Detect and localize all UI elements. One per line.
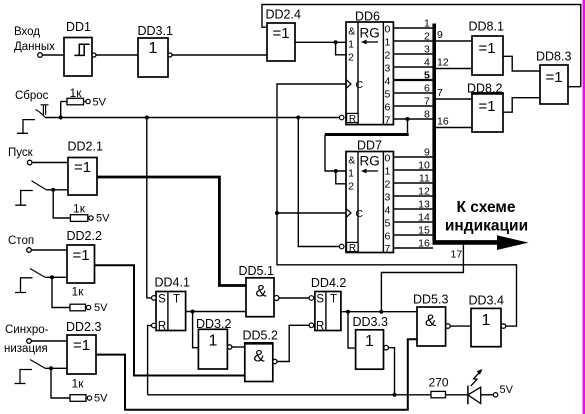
wire DD2.1 out thick to DD5.1 input 1	[97, 177, 246, 286]
inverter DD3.3	[353, 315, 389, 369]
bus line numbers 9-16	[418, 147, 430, 250]
svg-text:6: 6	[384, 102, 390, 114]
LED VD1	[468, 369, 494, 404]
svg-text:S: S	[158, 294, 166, 306]
svg-text:R: R	[349, 243, 356, 254]
wire DD2.4 out to DD6 inputs 1,2	[295, 42, 346, 55]
trigger DD4.2	[309, 276, 346, 333]
XOR gate DD8.3	[536, 50, 571, 105]
svg-text:=1: =1	[73, 337, 90, 354]
junction Пуск pullup	[51, 188, 55, 192]
wire DD3.4 out clock loop to DD6 DD7 C inputs	[277, 84, 517, 326]
buffer DD3.1	[138, 24, 173, 77]
resistor R3 1к (Стоп pullup)	[52, 277, 108, 314]
input terminal Синхронизация	[27, 339, 32, 344]
svg-text:5: 5	[384, 218, 390, 230]
wire Сброс down to DD4.1 S	[147, 118, 152, 298]
wire DD6 output 7	[393, 118, 433, 120]
bus tap 7 wire to DD8.2	[436, 98, 472, 100]
svg-text:1к: 1к	[73, 202, 86, 216]
junction DD3.3 out on LED net	[393, 393, 397, 397]
svg-text:7: 7	[384, 115, 390, 127]
arrow К схеме индикации	[433, 240, 500, 245]
svg-text:C: C	[356, 79, 364, 91]
wire cascade DD6 to DD7 inputs 1,2 (thick)	[407, 119, 409, 135]
XOR gate DD2.2	[67, 229, 102, 283]
junction DD7 input tie	[334, 169, 338, 173]
wire Синхронизация to DD2.3 input 1	[31, 340, 67, 342]
wire DD6 output 6	[393, 105, 433, 107]
resistor R2 1к (Пуск pullup)	[53, 190, 110, 225]
svg-text:7: 7	[424, 96, 430, 108]
svg-text:=1: =1	[72, 247, 89, 264]
pushbutton SB1 Сброс	[36, 105, 49, 117]
wire DD8.3 out to top loop	[568, 86, 581, 88]
wire DD4.1 out down to DD3.2 input	[193, 312, 199, 348]
wire switch to DD2.1 input 2	[46, 189, 68, 191]
svg-text:2: 2	[348, 52, 354, 64]
buffer DD3.4	[469, 294, 506, 347]
wire feedback from DD8.3 top loop	[262, 5, 581, 87]
svg-text:DD2.1: DD2.1	[68, 140, 103, 154]
svg-text:1: 1	[348, 39, 354, 51]
svg-text:DD3.1: DD3.1	[138, 24, 173, 38]
svg-text:5: 5	[384, 89, 390, 101]
svg-text:5V: 5V	[96, 213, 110, 225]
svg-text:RG: RG	[360, 154, 380, 169]
XOR gate DD8.1	[469, 20, 504, 76]
wire DD6 output 5	[393, 92, 433, 94]
pulse symbol Пуск	[15, 191, 33, 206]
inverter DD3.2	[196, 317, 232, 369]
wire DD4.2 out down to DD3.3 input	[348, 312, 356, 348]
wire DD7 output 7	[393, 247, 433, 249]
wire DD5.3 out to DD3.4 input	[450, 325, 471, 327]
wire Сброс net to DD6 R	[45, 117, 340, 119]
svg-text:4: 4	[384, 205, 390, 217]
wire DD6 output 1	[393, 40, 433, 42]
wire DD7 output 1	[393, 169, 433, 171]
svg-text:1: 1	[384, 166, 390, 178]
wire switch to DD2.2 input 2	[45, 276, 67, 278]
svg-text:2: 2	[384, 50, 390, 62]
svg-text:1: 1	[384, 37, 390, 49]
wire DD7 output 5	[393, 221, 433, 223]
junction Сброс resistor	[59, 116, 63, 120]
junction Сброс to DD4.1 S	[145, 116, 149, 120]
junction clock to DD7 C	[275, 211, 279, 215]
pulse symbol Стоп	[15, 278, 33, 293]
svg-text:S: S	[316, 294, 324, 306]
pulse symbol Синхронизация	[15, 370, 33, 384]
AND gate DD5.1	[239, 264, 280, 317]
svg-text:DD8.1: DD8.1	[469, 20, 504, 34]
wire DD8.2 out to DD8.3 input 2	[503, 98, 540, 113]
wire Стоп to DD2.2 input 1	[31, 249, 67, 251]
svg-text:DD2.3: DD2.3	[66, 320, 101, 334]
pulse symbol Сброс	[17, 120, 35, 134]
svg-text:0: 0	[384, 24, 390, 36]
junction DD6 input tie	[334, 40, 338, 44]
svg-text:=1: =1	[478, 40, 495, 57]
switch SA2 Стоп	[30, 269, 45, 278]
svg-text:DD5.3: DD5.3	[413, 293, 448, 307]
svg-text:DD3.3: DD3.3	[353, 315, 388, 329]
svg-text:=1: =1	[272, 25, 289, 42]
register DD7	[339, 139, 393, 256]
wire DD3.2 out to DD5.2 input 1	[232, 346, 245, 348]
svg-text:4: 4	[424, 57, 430, 69]
wire DD2.2 out to DD5.2 input 2	[95, 265, 245, 375]
svg-text:12: 12	[418, 186, 430, 198]
wire DD7 output 0	[393, 156, 433, 158]
svg-text:2: 2	[424, 31, 430, 43]
wire DD4.2 out up to bus line 17	[381, 244, 463, 312]
svg-text:1к: 1к	[72, 377, 85, 391]
register DD6	[339, 10, 393, 127]
svg-text:=1: =1	[478, 98, 495, 115]
border magenta right edge	[583, 0, 585, 414]
svg-text:Пуск: Пуск	[8, 147, 34, 159]
svg-text:=1: =1	[74, 159, 91, 176]
svg-text:DD4.1: DD4.1	[155, 276, 190, 290]
wire DD4.1 R / LED net	[148, 394, 431, 396]
bus tap 12 wire to DD8.1	[436, 68, 472, 70]
wire DD6 output 2	[393, 53, 433, 55]
input terminal Пуск	[27, 160, 32, 165]
switch SA1 Пуск	[32, 181, 47, 190]
svg-text:Сброс: Сброс	[15, 90, 49, 102]
wire DD6 output 3	[393, 66, 433, 68]
wire data input to DD1	[42, 54, 64, 56]
input terminal data	[38, 53, 43, 58]
svg-text:7: 7	[384, 243, 390, 255]
svg-text:13: 13	[418, 199, 430, 211]
bus vertical to indication	[432, 24, 436, 242]
svg-text:1: 1	[424, 18, 430, 30]
wire DD3.3 out down to R-net	[388, 348, 394, 395]
svg-text:8: 8	[424, 109, 430, 121]
svg-text:1: 1	[365, 333, 374, 350]
junction DD4.1 out to DD3.2	[191, 310, 195, 314]
XOR gate DD2.3	[66, 320, 101, 374]
svg-text:Вход: Вход	[14, 26, 40, 38]
svg-text:17: 17	[451, 249, 463, 261]
wire Пуск to DD2.1 input 1	[32, 162, 68, 164]
wire DD8.1 out to DD8.3 input 1	[503, 56, 540, 71]
svg-text:низация: низация	[4, 343, 48, 355]
svg-text:2: 2	[384, 179, 390, 191]
bus tap 9 wire to DD8.1	[436, 40, 472, 42]
svg-text:R: R	[316, 321, 324, 333]
bus line numbers 1-8	[424, 18, 430, 121]
svg-text:15: 15	[418, 225, 430, 237]
svg-text:1: 1	[209, 333, 218, 350]
svg-text:DD3.4: DD3.4	[469, 294, 504, 308]
inverter DD1 (Schmitt trigger)	[64, 20, 96, 76]
wire Сброс down to DD7 R	[298, 118, 339, 247]
junction Сброс to DD7 R	[296, 116, 300, 120]
svg-text:5: 5	[424, 70, 430, 82]
wire DD4.1 R input	[148, 326, 152, 395]
bus tap 16 wire to DD8.2	[436, 127, 472, 129]
svg-text:1: 1	[149, 40, 158, 57]
svg-text:5V: 5V	[500, 384, 514, 396]
svg-text:5V: 5V	[94, 302, 108, 314]
svg-text:270: 270	[428, 376, 448, 390]
svg-text:0: 0	[384, 153, 390, 165]
svg-text:T: T	[330, 294, 337, 306]
svg-text:&: &	[253, 347, 265, 366]
wire DD7 output 4	[393, 208, 433, 210]
svg-text:1: 1	[482, 312, 491, 329]
svg-text:6: 6	[384, 231, 390, 243]
svg-text:DD7: DD7	[357, 139, 382, 153]
svg-text:1к: 1к	[72, 285, 85, 299]
svg-text:16: 16	[437, 116, 449, 128]
svg-text:1: 1	[348, 168, 354, 180]
svg-text:RG: RG	[360, 26, 380, 41]
wire DD7 output 2	[393, 182, 433, 184]
junction DD4.2 out to DD3.3	[346, 310, 350, 314]
node Вход Данных label	[14, 26, 55, 53]
svg-text:3: 3	[424, 44, 430, 56]
svg-text:9: 9	[424, 147, 430, 159]
XOR gate DD2.4	[266, 8, 301, 62]
resistor R1 1к (Сброс pullup)	[61, 86, 107, 118]
svg-text:R: R	[158, 321, 166, 333]
svg-text:T: T	[173, 294, 180, 306]
input terminal Стоп	[27, 248, 32, 253]
svg-text:14: 14	[418, 212, 430, 224]
wire DD4.1 out to DD5.1 input 2	[186, 311, 246, 313]
svg-text:Стоп: Стоп	[8, 235, 34, 247]
svg-text:16: 16	[418, 238, 430, 250]
wire DD1 out to DD3.1	[96, 54, 138, 56]
svg-text:DD2.2: DD2.2	[67, 229, 102, 243]
wire DD7 output 6	[393, 234, 433, 236]
junction DD6 output 7 cascade	[406, 117, 410, 121]
svg-text:Данных: Данных	[14, 41, 55, 53]
node Синхронизация label	[4, 324, 49, 355]
XOR gate DD2.1	[68, 140, 103, 196]
svg-text:C: C	[356, 208, 364, 220]
svg-text:&: &	[348, 155, 355, 167]
svg-text:7: 7	[437, 87, 443, 99]
svg-text:3: 3	[384, 192, 390, 204]
svg-text:Синхро-: Синхро-	[5, 324, 49, 336]
trigger DD4.1	[152, 276, 190, 333]
svg-text:DD5.2: DD5.2	[243, 329, 278, 343]
wire switch to DD2.3 input 2	[45, 367, 67, 369]
wire DD6 output 4	[393, 79, 433, 81]
wire DD2.3 out bottom run to DD5.3 input 2	[96, 339, 417, 410]
svg-text:10: 10	[418, 160, 430, 172]
junction Синхронизация pullup	[49, 366, 53, 370]
svg-text:R: R	[349, 114, 356, 125]
svg-text:5V: 5V	[93, 97, 107, 109]
junction DD4.2 out to bus 17	[379, 310, 383, 314]
svg-text:DD2.4: DD2.4	[266, 8, 301, 22]
terminal 5V LED	[493, 393, 497, 397]
svg-text:DD8.3: DD8.3	[536, 50, 571, 64]
wire DD5.1 out to DD4.2 S	[279, 297, 309, 299]
svg-text:4: 4	[384, 76, 390, 88]
svg-text:9: 9	[437, 29, 443, 41]
node К схеме индикации label	[445, 199, 528, 235]
wire DD4.2 R input from DD5.2 out	[277, 325, 309, 361]
svg-text:5V: 5V	[94, 393, 108, 405]
svg-text:&: &	[348, 26, 355, 38]
svg-text:3: 3	[384, 63, 390, 75]
AND gate DD5.3	[413, 293, 450, 347]
wire DD3.1 out to DD2.4 input 2	[172, 54, 267, 56]
AND gate DD5.2	[243, 329, 278, 382]
svg-text:2: 2	[348, 181, 354, 193]
wire DD4.2 out to DD5.3 input 1	[341, 311, 417, 313]
XOR gate DD8.2	[467, 82, 504, 133]
junction Стоп pullup	[50, 275, 54, 279]
svg-text:DD1: DD1	[66, 20, 91, 34]
svg-text:индикации: индикации	[445, 218, 528, 235]
svg-text:6: 6	[424, 83, 430, 95]
svg-text:DD5.1: DD5.1	[239, 264, 274, 278]
svg-text:&: &	[425, 311, 437, 330]
resistor R4 1к (Синхронизация pullup)	[51, 368, 108, 404]
switch SA3 Синхронизация	[30, 360, 45, 369]
svg-text:12: 12	[437, 57, 449, 69]
resistor R5 270	[428, 376, 467, 398]
svg-text:=1: =1	[545, 69, 562, 86]
svg-text:DD4.2: DD4.2	[311, 276, 346, 290]
wire DD7 output 3	[393, 195, 433, 197]
wire DD6 output 0	[393, 27, 433, 29]
svg-text:&: &	[255, 282, 267, 301]
svg-text:К схеме: К схеме	[457, 199, 516, 216]
svg-text:11: 11	[419, 173, 430, 185]
